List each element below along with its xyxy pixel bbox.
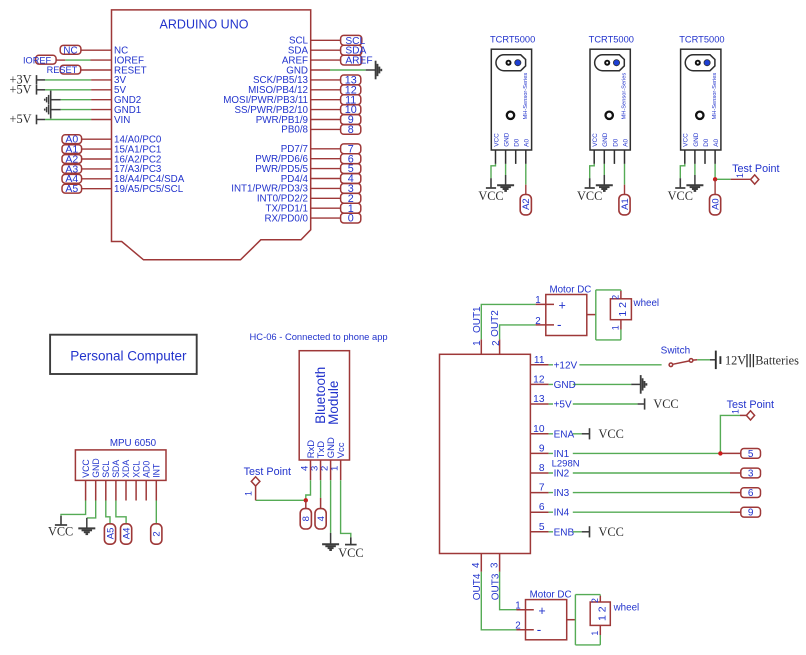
svg-text:IN2: IN2 [554, 469, 570, 480]
wire U4 Vcc [341, 480, 351, 537]
ground GND2 symbol [50, 91, 52, 119]
net labels 7-0 [341, 144, 361, 154]
svg-text:IN1: IN1 [554, 449, 570, 460]
svg-text:1 2: 1 2 [617, 302, 629, 317]
wire GND net [549, 383, 632, 385]
net labels A0-A5 [62, 135, 82, 144]
wire U4 TxD to label 4 [320, 480, 322, 498]
sensor S1 TCRT5000 body [491, 49, 531, 150]
junction IN1 [718, 451, 722, 455]
svg-text:+5V: +5V [10, 82, 32, 96]
svg-text:1 2: 1 2 [596, 606, 608, 621]
supply VCC S2 [589, 178, 591, 188]
svg-text:GND: GND [91, 458, 101, 478]
svg-text:1: 1 [590, 631, 600, 636]
svg-text:D0: D0 [703, 138, 710, 147]
svg-text:1: 1 [610, 325, 620, 330]
LED dot black S3 [695, 60, 701, 66]
wire S2 GND [603, 164, 605, 175]
svg-text:VIN: VIN [114, 115, 130, 126]
wire test point TP1 branch [715, 178, 731, 180]
svg-text:2: 2 [590, 598, 600, 603]
svg-text:AREF: AREF [345, 56, 372, 67]
svg-text:VCC: VCC [493, 133, 500, 147]
svg-text:D0: D0 [514, 138, 521, 147]
svg-text:Motor DC: Motor DC [530, 589, 572, 600]
wire U4 GND [330, 480, 332, 533]
net label NC [60, 45, 81, 54]
wires SCL SDA AREF [311, 39, 341, 41]
ground S1 [497, 184, 514, 186]
pins M1 left [536, 303, 554, 305]
net label 2 [151, 524, 162, 544]
svg-text:A1: A1 [620, 198, 631, 210]
svg-text:7: 7 [539, 483, 545, 494]
LED dot black S1 [506, 60, 512, 66]
svg-text:MH-Sensor-Series: MH-Sensor-Series [712, 73, 718, 120]
wire IN1 test point branch [720, 415, 740, 453]
test point TP1 [751, 175, 759, 184]
LED window S1 [496, 55, 526, 71]
ground S2 [596, 184, 613, 186]
supply VCC U3 [60, 516, 62, 525]
svg-text:OUT4: OUT4 [472, 573, 483, 600]
svg-text:RX/PD0/0: RX/PD0/0 [264, 213, 308, 224]
svg-text:GND: GND [504, 132, 511, 147]
svg-text:9: 9 [748, 508, 754, 519]
pins S2 [593, 150, 595, 164]
wire GND1 [51, 109, 61, 111]
svg-text:VCC: VCC [683, 133, 690, 147]
svg-text:2: 2 [610, 295, 620, 300]
LED dot blue S2 [613, 60, 619, 66]
net label 9 [741, 507, 761, 517]
svg-text:A2: A2 [521, 198, 532, 210]
wire switch to battery [697, 359, 710, 361]
svg-text:+12V: +12V [554, 360, 578, 371]
svg-text:GND: GND [554, 380, 576, 391]
op-amp U1 ARDUINO UNO body [112, 10, 311, 260]
svg-text:VCC: VCC [338, 546, 363, 560]
wire +5V net [549, 403, 638, 405]
svg-text:ENB: ENB [554, 527, 575, 538]
svg-text:VCC: VCC [599, 427, 624, 441]
net label IOREF [36, 55, 57, 64]
svg-text:A5: A5 [105, 528, 116, 540]
pins U2 top 1 2 [480, 339, 482, 354]
wire test point TP2 net [256, 499, 306, 501]
net label 6 [741, 488, 761, 498]
ground U4 [322, 543, 339, 545]
svg-text:+5V: +5V [10, 112, 32, 126]
svg-text:5: 5 [539, 522, 545, 533]
svg-text:VCC: VCC [592, 133, 599, 147]
svg-text:Test Point: Test Point [244, 466, 291, 478]
wire U4 RxD [306, 480, 311, 500]
supply VCC +5V [644, 398, 646, 409]
motor M2 Motor DC body [526, 600, 567, 640]
wire S1 VCC [491, 164, 496, 178]
net labels 13-8 [341, 75, 361, 85]
wire U3 INT net 2 [155, 501, 157, 524]
svg-text:Module: Module [326, 381, 341, 425]
svg-text:VCC: VCC [577, 189, 602, 203]
svg-text:VCC: VCC [668, 189, 693, 203]
svg-text:XCL: XCL [131, 461, 141, 478]
svg-text:1: 1 [535, 295, 540, 306]
net label A4 [121, 524, 132, 544]
svg-text:RESET: RESET [47, 65, 78, 75]
LED dot blue S1 [515, 60, 521, 66]
wire S2 VCC [590, 164, 595, 178]
svg-text:13: 13 [533, 394, 545, 405]
svg-text:+: + [559, 299, 566, 313]
wire NC [81, 49, 112, 51]
svg-text:MH-Sensor-Series: MH-Sensor-Series [523, 73, 529, 120]
svg-text:MH-Sensor-Series: MH-Sensor-Series [622, 73, 628, 120]
svg-text:GND: GND [602, 132, 609, 147]
wire 5V [45, 89, 91, 91]
svg-text:TCRT5000: TCRT5000 [679, 34, 724, 44]
svg-text:VCC: VCC [478, 189, 503, 203]
LED window S3 [685, 55, 715, 71]
svg-text:1: 1 [330, 466, 341, 471]
wires A0-A5 [82, 138, 112, 140]
svg-text:12: 12 [533, 374, 545, 385]
svg-text:PB0/8: PB0/8 [281, 125, 308, 136]
wire S1 A0 net A2 [525, 164, 527, 185]
svg-text:OUT2: OUT2 [490, 310, 501, 337]
svg-text:AD0: AD0 [141, 461, 151, 478]
svg-text:Vcc: Vcc [336, 442, 347, 458]
wire OUT3 [500, 572, 517, 610]
LED window S2 [595, 55, 625, 71]
svg-text:Batteries: Batteries [755, 354, 799, 368]
wire GND2 [51, 99, 61, 101]
wire IN3 net 6 [549, 492, 730, 494]
svg-text:MPU 6050: MPU 6050 [110, 438, 157, 449]
pin M2 right [567, 619, 576, 621]
svg-text:10: 10 [533, 424, 545, 435]
module U4 Bluetooth body [299, 351, 349, 460]
svg-text:A0: A0 [713, 139, 720, 147]
net label 5 [741, 449, 761, 459]
svg-text:1: 1 [731, 409, 741, 414]
ground GND1 symbol [48, 105, 50, 115]
block PC1 Personal Computer [50, 335, 197, 374]
svg-text:NC: NC [63, 45, 77, 56]
svg-text:4: 4 [471, 562, 482, 568]
svg-text:5: 5 [748, 449, 754, 460]
ground U2 GND [640, 375, 642, 394]
pin names U2 right with background [553, 359, 579, 369]
svg-text:VCC: VCC [48, 525, 73, 539]
svg-text:0: 0 [348, 213, 354, 225]
svg-text:XDA: XDA [121, 460, 131, 478]
wire IN4 net 9 [549, 511, 730, 513]
svg-text:11: 11 [534, 355, 545, 366]
svg-text:2: 2 [515, 621, 520, 632]
wire ENB net [549, 531, 582, 533]
svg-text:IN4: IN4 [554, 508, 570, 519]
svg-text:9: 9 [539, 443, 545, 454]
svg-text:-: - [537, 622, 542, 637]
wire M1 to wheel W1 [595, 314, 597, 316]
net label RESET [60, 65, 80, 74]
svg-text:IN3: IN3 [554, 488, 570, 499]
svg-text:TCRT5000: TCRT5000 [589, 34, 634, 44]
svg-text:1: 1 [244, 491, 254, 496]
svg-text:8: 8 [348, 124, 354, 136]
svg-text:4: 4 [316, 516, 327, 521]
sensor pot ring S3 [696, 112, 703, 119]
wire +12V to switch [549, 364, 662, 366]
svg-text:ENA: ENA [554, 429, 575, 440]
wire U4 RxD to label 8 [305, 500, 307, 508]
svg-text:wheel: wheel [633, 298, 660, 309]
wire IN1 net 5 [549, 452, 721, 454]
wire U3 GND [87, 501, 96, 518]
wire U3 SDA net A4 [116, 501, 126, 524]
pins M2 left [517, 609, 534, 611]
svg-text:-: - [557, 317, 562, 332]
sensor U3 MPU 6050 body [75, 450, 166, 481]
net labels SCL SDA AREF [341, 35, 362, 45]
pin M1 right [587, 314, 596, 316]
svg-text:A5: A5 [65, 183, 78, 195]
driver U2 L298N body [440, 354, 531, 553]
supply VCC U4 [350, 537, 352, 544]
svg-text:19/A5/PC5/SCL: 19/A5/PC5/SCL [114, 184, 184, 195]
supply VCC ENB [589, 526, 591, 537]
svg-text:A0: A0 [524, 139, 531, 147]
net label A2 [520, 195, 531, 215]
wire 3V [45, 79, 91, 81]
net label A1 [619, 195, 630, 215]
ground GND right symbol [375, 61, 377, 80]
svg-text:3: 3 [748, 468, 754, 479]
svg-text:2: 2 [152, 531, 163, 536]
net label 4 [315, 509, 326, 529]
sensor S3 TCRT5000 body [681, 49, 721, 150]
wire S3 VCC [680, 164, 685, 178]
LED dot blue S3 [704, 60, 710, 66]
supply VCC S3 [679, 178, 681, 188]
svg-text:TCRT5000: TCRT5000 [490, 34, 535, 44]
svg-text:1: 1 [472, 340, 483, 345]
svg-text:VCC: VCC [599, 525, 624, 539]
pins W1 [620, 291, 622, 299]
svg-text:A0: A0 [711, 198, 722, 210]
svg-text:1: 1 [515, 601, 520, 612]
svg-text:Switch: Switch [661, 345, 690, 356]
svg-text:OUT1: OUT1 [472, 306, 483, 333]
pins U2 right [530, 364, 548, 366]
svg-text:+: + [538, 604, 545, 618]
wire OUT4 [481, 572, 516, 630]
wire GND to ground [311, 69, 330, 71]
supply VCC S1 [490, 178, 492, 188]
wire U3 VCC [61, 501, 86, 516]
svg-text:2: 2 [491, 340, 502, 345]
svg-text:+5V: +5V [554, 400, 572, 411]
wire OUT1 [481, 304, 535, 339]
wire IN2 net 3 [549, 472, 730, 474]
supply VCC ENA [589, 428, 591, 439]
ground U3 [78, 527, 95, 529]
wire IOREF [56, 59, 65, 61]
switch SW1 [669, 363, 673, 367]
sensor pot ring S1 [507, 112, 514, 119]
svg-text:A4: A4 [122, 528, 133, 540]
junction S3 A0 [713, 177, 717, 181]
wire S1 GND [505, 164, 507, 175]
net label 3 [741, 468, 761, 478]
battery B1 12V Batteries [715, 351, 717, 370]
svg-text:6: 6 [748, 488, 754, 499]
test point TP3 [746, 411, 754, 420]
junction U4 RxD [304, 498, 308, 502]
svg-text:8: 8 [539, 463, 545, 474]
svg-text:SCL: SCL [101, 461, 111, 478]
wire U3 SCL net A5 [106, 501, 110, 524]
pins U4 [310, 460, 312, 480]
svg-text:3: 3 [490, 562, 501, 568]
wire OUT2 [500, 325, 536, 339]
svg-text:VCC: VCC [81, 459, 91, 478]
wire ENA net [549, 433, 582, 435]
net label A0 [710, 195, 721, 215]
motor M1 Motor DC body [546, 295, 587, 336]
svg-text:wheel: wheel [613, 603, 640, 614]
svg-text:IOREF: IOREF [23, 55, 51, 65]
svg-text:2: 2 [535, 316, 540, 327]
net label A5 [104, 524, 115, 544]
wire VIN [45, 119, 91, 121]
svg-text:12V: 12V [725, 354, 746, 368]
svg-text:GND: GND [693, 132, 700, 147]
wire RESET [81, 69, 112, 71]
svg-text:A0: A0 [622, 139, 629, 147]
svg-text:INT: INT [152, 463, 162, 478]
wire M2 to wheel W2 [574, 595, 576, 645]
wire S2 A0 net A1 [624, 164, 626, 185]
wheel W2 body [590, 602, 610, 625]
ground S3 [686, 184, 703, 186]
svg-text:D0: D0 [612, 138, 619, 147]
pins S3 [684, 150, 686, 164]
svg-text:VCC: VCC [653, 397, 678, 411]
pins W2 [599, 596, 601, 602]
pins S1 [495, 150, 497, 164]
pins U2 bottom 4 3 [480, 554, 482, 572]
sensor S2 TCRT5000 body [590, 49, 630, 150]
wheel W1 body [610, 299, 631, 320]
svg-text:SDA: SDA [111, 460, 121, 478]
sensor pot ring S2 [606, 112, 613, 119]
pins U3 [85, 480, 87, 500]
svg-text:OUT3: OUT3 [491, 573, 502, 600]
wire S3 GND [694, 164, 696, 175]
net label 8 [300, 509, 311, 529]
svg-text:1: 1 [735, 173, 745, 178]
svg-text:Personal Computer: Personal Computer [70, 349, 187, 364]
svg-text:ARDUINO UNO: ARDUINO UNO [160, 18, 249, 32]
svg-text:HC-06 - Connected to phone app: HC-06 - Connected to phone app [250, 331, 388, 342]
wire S3 to label A0 [714, 179, 716, 194]
wire S3 A0 net A0 [714, 164, 716, 179]
test point TP2 [255, 486, 257, 500]
svg-text:8: 8 [301, 516, 312, 521]
LED dot black S2 [604, 60, 610, 66]
svg-text:6: 6 [539, 502, 545, 513]
svg-text:Motor DC: Motor DC [549, 284, 591, 295]
